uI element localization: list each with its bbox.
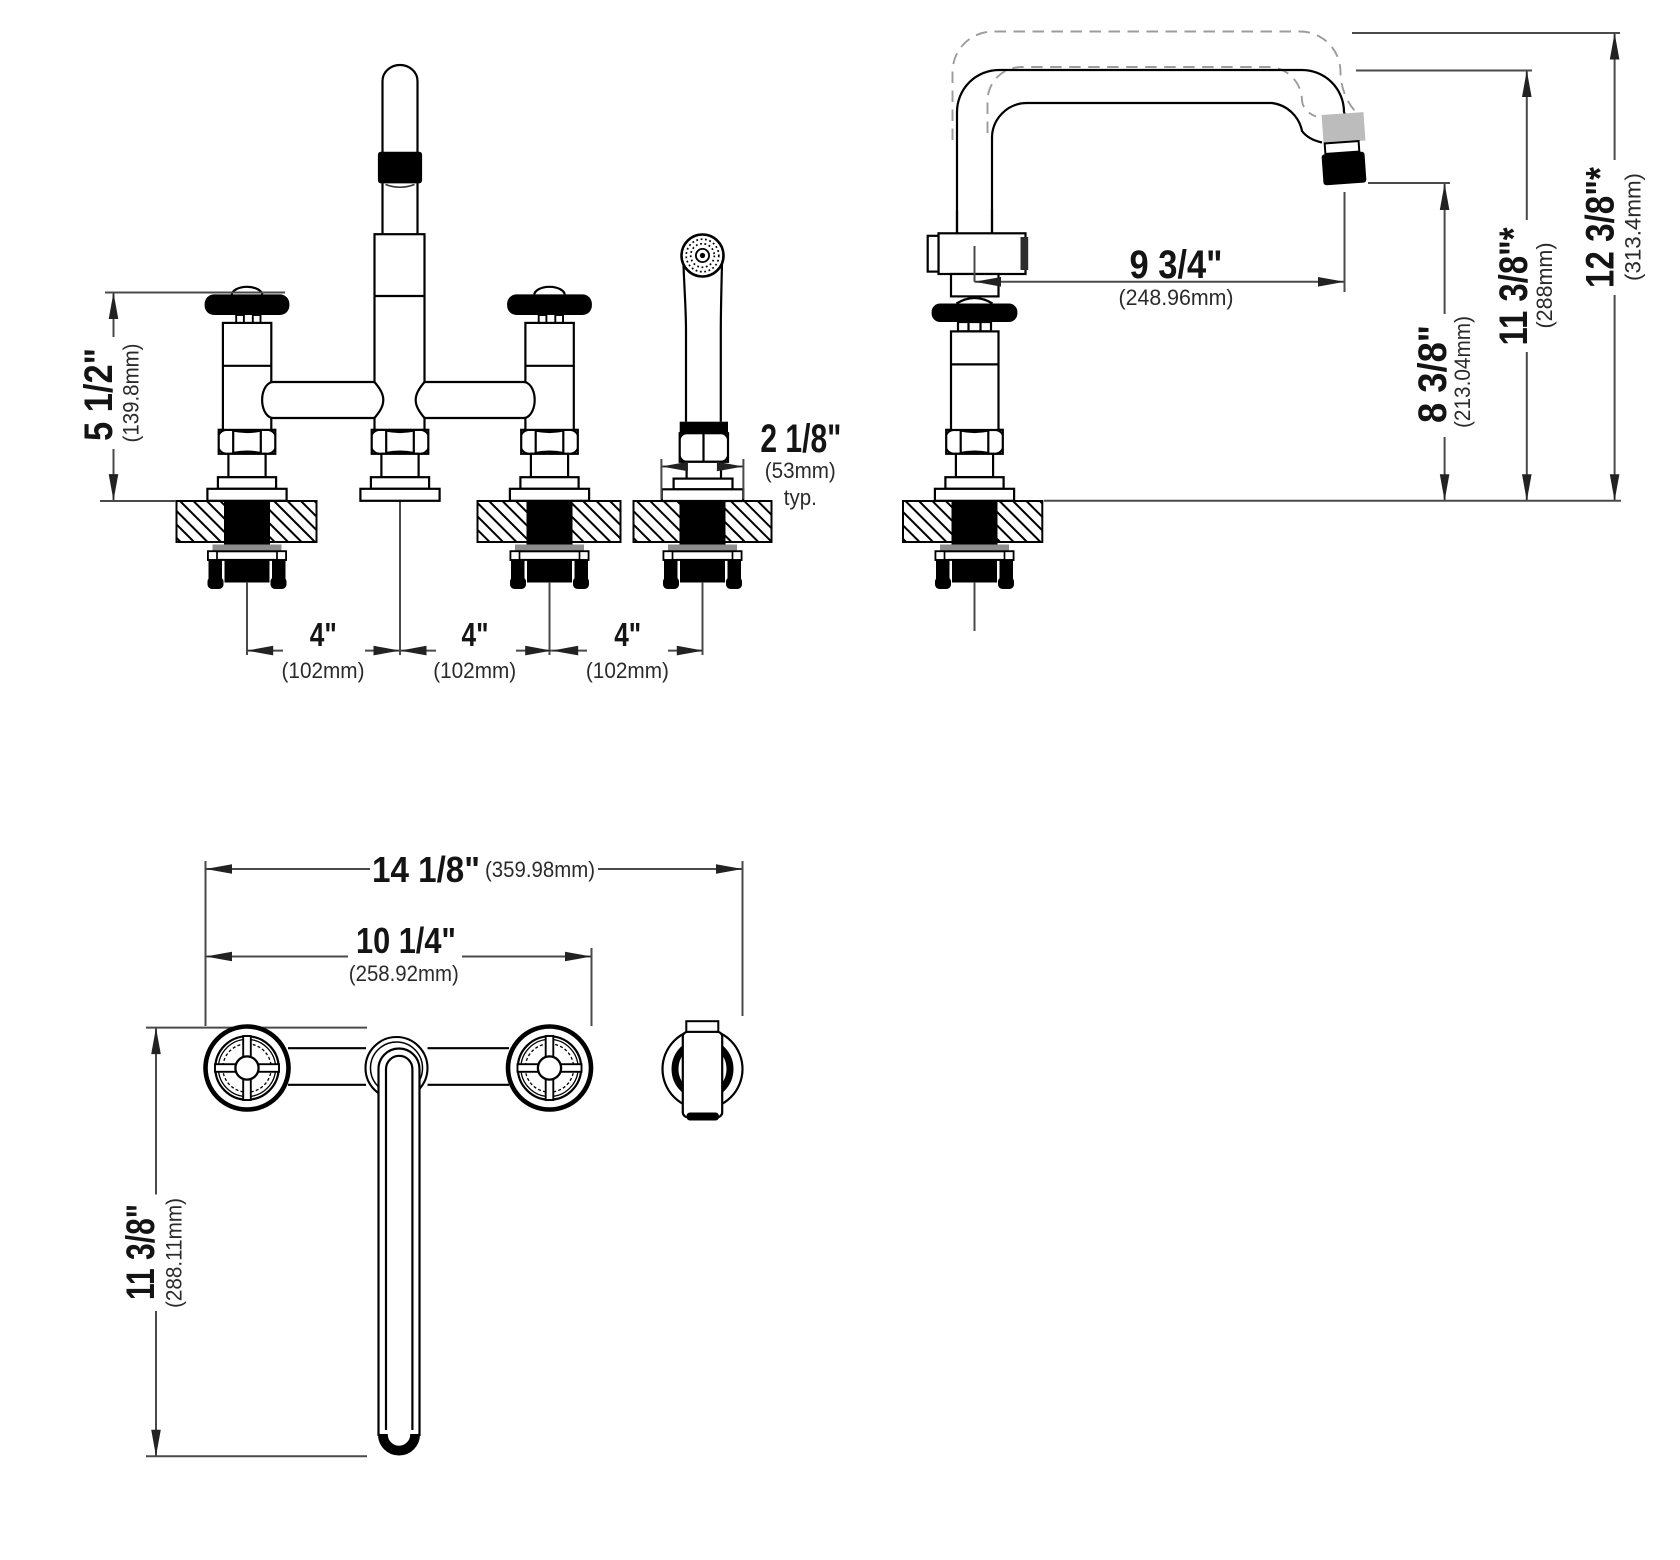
sprayer supply stub / 4in extension line bbox=[702, 582, 704, 655]
side view mounting hardware bbox=[935, 501, 1014, 589]
svg-text:(213.04mm): (213.04mm) bbox=[1450, 316, 1475, 428]
right valve body with cross handle bbox=[507, 287, 592, 430]
svg-text:(102mm): (102mm) bbox=[282, 658, 365, 683]
arc under band bbox=[386, 185, 415, 188]
top extension line (wheel tangent) bbox=[146, 1027, 367, 1029]
sprayer shank and escutcheon bbox=[662, 462, 743, 501]
svg-text:4": 4" bbox=[462, 616, 489, 653]
svg-text:(258.92mm): (258.92mm) bbox=[349, 961, 459, 986]
svg-text:11 3/8": 11 3/8" bbox=[119, 1204, 163, 1300]
dimension 5 1/2in with extension lines bbox=[77, 293, 285, 502]
left valve shank and escutcheon bbox=[207, 454, 286, 501]
left valve mounting hardware bbox=[208, 501, 287, 589]
svg-text:(248.96mm): (248.96mm) bbox=[1119, 285, 1234, 310]
solid spout (rest position) bbox=[957, 70, 1346, 234]
svg-text:11 3/8"*: 11 3/8"* bbox=[1492, 227, 1536, 345]
dimension 14 1/8in bbox=[206, 849, 743, 1026]
column waist fillet left bbox=[375, 382, 384, 418]
dimension 8 3/8in vertical bbox=[1411, 184, 1475, 501]
center spout column: supply line below deck bbox=[399, 501, 401, 655]
dimension 9 3/4in bbox=[975, 192, 1345, 310]
plan spout tube pointing down bbox=[378, 1049, 419, 1456]
deck slab right (hatched) bbox=[478, 501, 621, 542]
extension line aerator bottom bbox=[1368, 182, 1450, 184]
svg-text:5 1/2": 5 1/2" bbox=[77, 348, 121, 441]
dimension 2 1/8in typ near sprayer bbox=[661, 417, 841, 510]
svg-text:typ.: typ. bbox=[784, 485, 817, 510]
plan right wheel bbox=[508, 1027, 591, 1110]
svg-text:(313.4mm): (313.4mm) bbox=[1620, 173, 1645, 281]
bottom extension line (spout tip) bbox=[146, 1455, 367, 1457]
svg-text:8 3/8": 8 3/8" bbox=[1411, 325, 1455, 423]
column waist fillet right bbox=[416, 382, 425, 418]
right valve hex nut bbox=[521, 430, 578, 454]
side valve body bbox=[928, 233, 1028, 274]
svg-text:9 3/4": 9 3/4" bbox=[1130, 243, 1223, 287]
svg-text:2 1/8": 2 1/8" bbox=[760, 417, 841, 461]
dimension 10 1/4in bbox=[206, 920, 592, 1026]
aerator neck bbox=[1325, 141, 1360, 154]
svg-text:4": 4" bbox=[614, 616, 641, 653]
svg-text:(288mm): (288mm) bbox=[1532, 243, 1557, 329]
plan sprayer bbox=[663, 1021, 743, 1120]
svg-text:(139.8mm): (139.8mm) bbox=[118, 344, 143, 443]
svg-text:10 1/4": 10 1/4" bbox=[356, 920, 456, 961]
svg-text:12 3/8"*: 12 3/8"* bbox=[1579, 167, 1623, 288]
center column body bbox=[375, 234, 425, 430]
sprayer hex nut bbox=[680, 433, 728, 462]
spout riser tube lines over body bbox=[956, 210, 958, 233]
deck slab side view (hatched) bbox=[903, 501, 1042, 542]
plan left wheel bbox=[206, 1027, 289, 1110]
dimension 12 3/8in* vertical bbox=[1579, 33, 1646, 501]
plan bridge bar bbox=[288, 1048, 509, 1085]
svg-text:(102mm): (102mm) bbox=[433, 658, 516, 683]
svg-text:(359.98mm): (359.98mm) bbox=[485, 857, 595, 882]
plan center spout base circles bbox=[366, 1037, 428, 1099]
deck top extension line to right dims bbox=[1044, 500, 1621, 502]
side column separator line bbox=[951, 363, 999, 365]
svg-text:4": 4" bbox=[310, 616, 337, 653]
raised-position aerator (gray phantom) bbox=[1322, 112, 1366, 143]
bridge right end cap bulge bbox=[525, 382, 534, 418]
side handle dome bbox=[957, 298, 993, 304]
side view shank and escutcheon bbox=[935, 454, 1014, 501]
sprayer body bbox=[683, 260, 722, 422]
side stem under handle bbox=[958, 322, 991, 331]
deck slab left (hatched) bbox=[177, 501, 317, 542]
side cross handle (edge-on, black) bbox=[932, 304, 1018, 323]
svg-text:14 1/8": 14 1/8" bbox=[372, 849, 480, 890]
dimension 11 3/8in* vertical bbox=[1492, 71, 1557, 501]
dimension 11 3/8in plan vertical bbox=[119, 1028, 187, 1457]
svg-text:(53mm): (53mm) bbox=[765, 458, 836, 483]
aerator (black) bbox=[1321, 152, 1366, 186]
deck slab sprayer (hatched) bbox=[634, 501, 772, 542]
side column body bbox=[951, 331, 999, 430]
bridge tube between valves and column bbox=[263, 382, 535, 418]
dashed raised spout (phantom position) bbox=[953, 32, 1356, 141]
left valve body with cross handle bbox=[205, 287, 290, 430]
side valve neck bbox=[951, 274, 999, 296]
extension line dashed spout top bbox=[1352, 32, 1620, 34]
sprayer mounting hardware bbox=[663, 501, 742, 589]
sprayer head face (dotted) bbox=[682, 235, 724, 277]
center column hex nut bbox=[372, 430, 429, 454]
center spout riser tube with rounded top bbox=[383, 65, 418, 235]
center column separator line bbox=[375, 295, 425, 297]
center column shank and escutcheon bbox=[360, 454, 439, 501]
right valve shank and escutcheon bbox=[510, 454, 589, 501]
dimension 4in left pair bbox=[247, 616, 400, 683]
left valve supply stub / 4in extension line bbox=[246, 582, 248, 655]
right valve supply stub / 4in extension line bbox=[549, 582, 551, 655]
bridge left end cap bulge bbox=[262, 382, 271, 418]
spout swivel black band bbox=[378, 152, 422, 184]
dimension 4in middle pair bbox=[400, 616, 552, 683]
sprayer black band bbox=[680, 422, 728, 434]
side view hex nut bbox=[946, 430, 1003, 454]
svg-text:(288.11mm): (288.11mm) bbox=[162, 1198, 187, 1308]
side view supply stub bbox=[974, 582, 976, 631]
svg-text:(102mm): (102mm) bbox=[586, 658, 669, 683]
right valve mounting hardware bbox=[510, 501, 589, 589]
left valve hex nut bbox=[219, 430, 276, 454]
extension line solid spout top bbox=[1356, 70, 1532, 72]
dimension 4in right pair bbox=[552, 616, 704, 683]
